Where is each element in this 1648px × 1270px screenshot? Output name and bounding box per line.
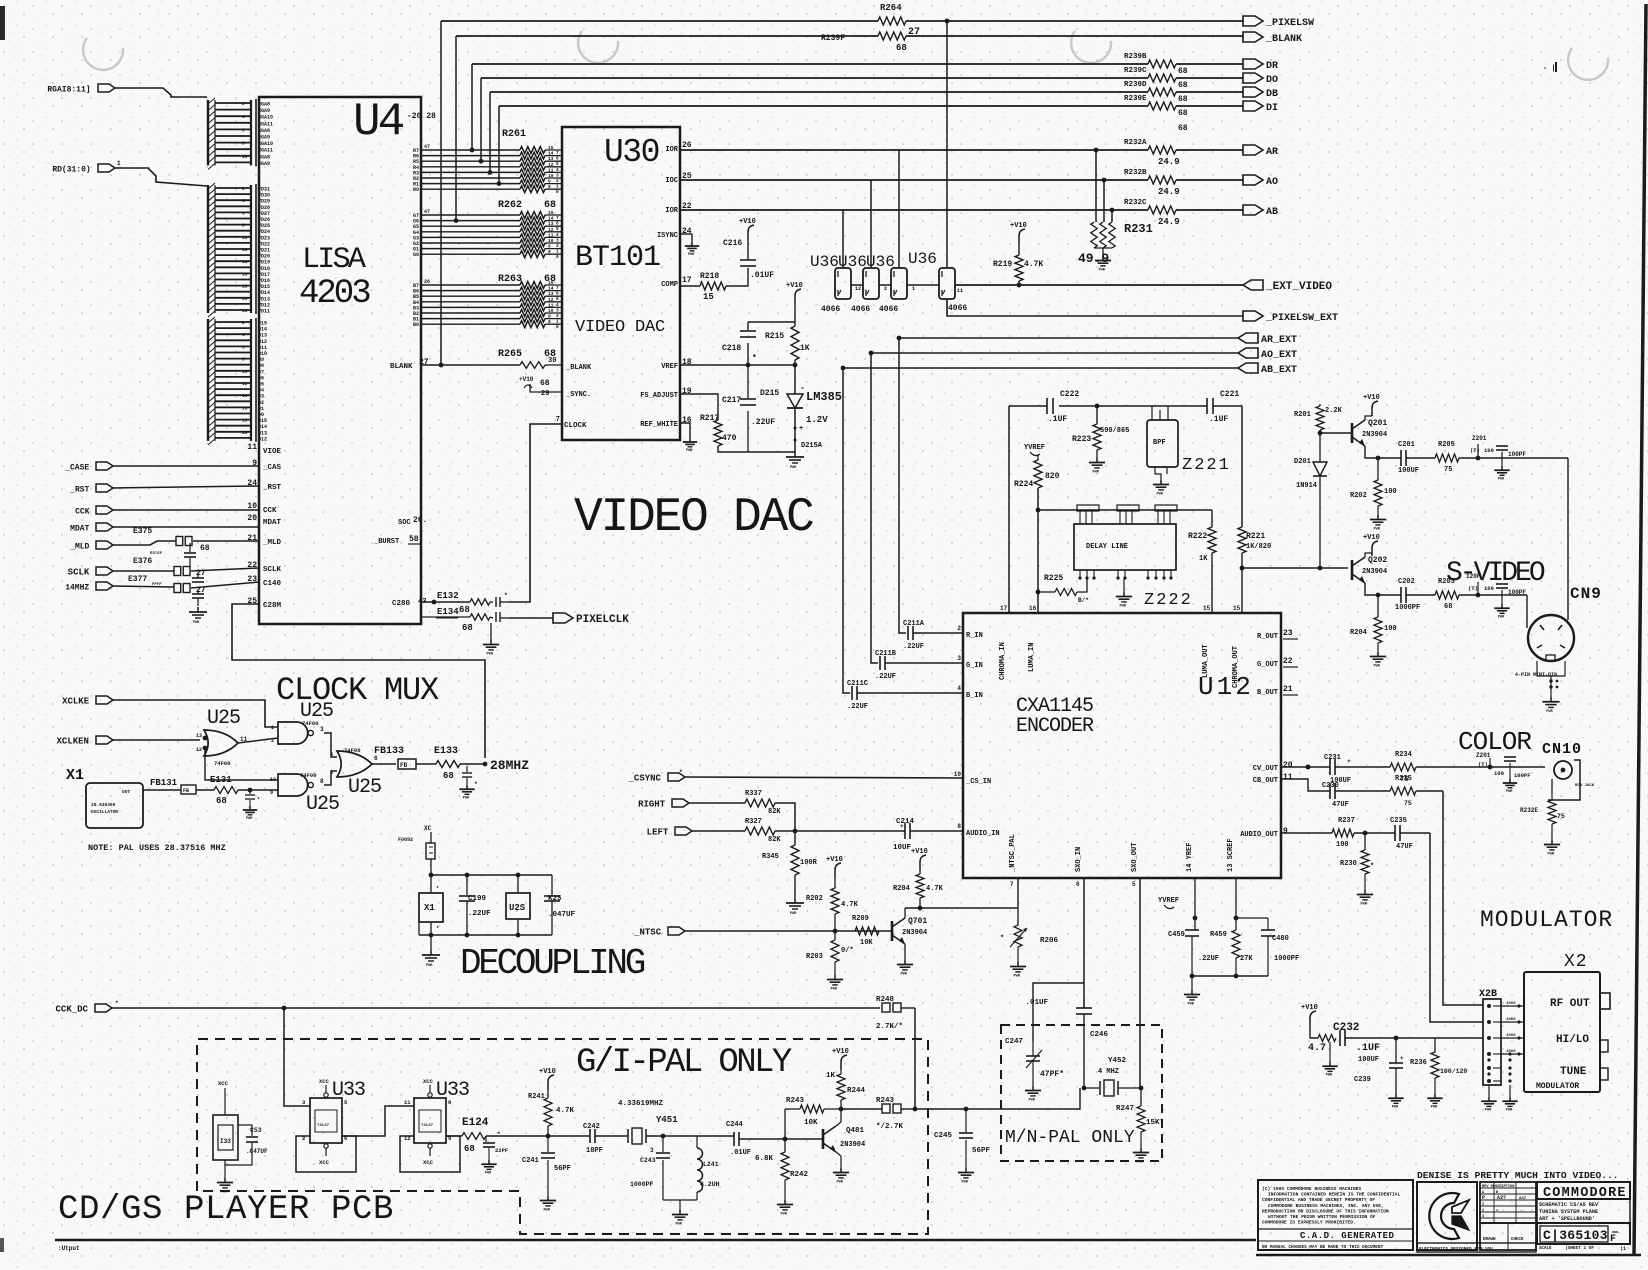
svg-text:SXO_OUT: SXO_OUT: [1131, 843, 1139, 872]
svg-text:RIGHT: RIGHT: [638, 800, 666, 810]
resistor R265: [520, 362, 545, 369]
node AO_EXT output: [1238, 348, 1258, 358]
svg-text:6: 6: [242, 210, 245, 216]
svg-text:_SYNC.: _SYNC.: [565, 391, 591, 399]
wire FB133 to E133: [416, 763, 436, 765]
ground X2B col1: [1488, 1085, 1490, 1097]
svg-text:_PIXELSW_EXT: _PIXELSW_EXT: [1265, 313, 1338, 324]
svg-text:+V10: +V10: [1010, 222, 1027, 230]
svg-text:XCC: XCC: [319, 1159, 330, 1166]
svg-text:COLOR: COLOR: [1458, 727, 1531, 757]
svg-text:47PF*: 47PF*: [1040, 1070, 1064, 1079]
svg-text:BLANK: BLANK: [390, 363, 413, 371]
ground under I33: [224, 1165, 226, 1178]
wire vertical net DO: [480, 78, 482, 161]
svg-text:2.2K: 2.2K: [1325, 407, 1343, 415]
svg-text:PWR: PWR: [1157, 492, 1164, 496]
svg-text:SOC: SOC: [398, 519, 411, 527]
svg-text:R222: R222: [1188, 532, 1207, 541]
svg-text:XCC: XCC: [423, 1159, 434, 1166]
svg-text:LEFT: LEFT: [647, 828, 669, 838]
svg-text:PWR: PWR: [781, 1212, 788, 1216]
svg-text:R205: R205: [1438, 441, 1455, 449]
ground under C247: [1032, 1086, 1034, 1091]
svg-text:.01UF: .01UF: [750, 271, 774, 280]
svg-text:CLOCK: CLOCK: [564, 422, 587, 430]
svg-text:INFORMATION CONTAINED HEREIN I: INFORMATION CONTAINED HEREIN IS THE CONF…: [1268, 1192, 1401, 1198]
svg-text:G0: G0: [413, 252, 419, 258]
svg-text:Y452: Y452: [1108, 1057, 1127, 1065]
wire REF_WHITE stub to ground: [680, 423, 690, 438]
svg-text:100: 100: [1336, 841, 1349, 849]
G/I-PAL ONLY dashed box: [197, 1039, 928, 1234]
svg-text:MDAT: MDAT: [263, 519, 282, 527]
CN9 pins below: [1536, 661, 1538, 672]
svg-text:4066: 4066: [851, 305, 870, 314]
wire RGA bus to ladder: [115, 88, 207, 97]
svg-text:R247: R247: [1116, 1105, 1134, 1113]
analog switch U36 b: [863, 268, 879, 299]
ground under C459 rail: [1191, 976, 1193, 990]
svg-text:1K: 1K: [800, 344, 810, 353]
svg-text:56PF: 56PF: [554, 1165, 571, 1173]
ground under R247: [1140, 1132, 1142, 1148]
svg-text:I33: I33: [220, 1138, 231, 1145]
svg-text:DR: DR: [1266, 61, 1278, 72]
svg-text:C239: C239: [1354, 1076, 1371, 1084]
ground under C245: [965, 1168, 967, 1173]
svg-text:L241: L241: [703, 1161, 719, 1168]
wire U33a to U33b: [342, 1106, 414, 1136]
svg-text:8: 8: [242, 357, 245, 363]
svg-text:- |: - |: [1543, 65, 1556, 73]
svg-text:E376: E376: [133, 557, 152, 566]
svg-text:100PF: 100PF: [1508, 451, 1526, 458]
svg-text:COMMODORE IS EXPRESSLY PROHIBI: COMMODORE IS EXPRESSLY PROHIBITED.: [1262, 1220, 1356, 1226]
svg-text:PWR: PWR: [1392, 1106, 1399, 1110]
svg-text:COMP: COMP: [661, 281, 678, 289]
gate U25 or-gate A: [204, 730, 238, 756]
rail under tank: [663, 1199, 697, 1201]
wire DI rail: [499, 105, 1148, 107]
svg-text:4: 4: [242, 332, 245, 338]
svg-text:MDAT: MDAT: [70, 525, 89, 534]
ground under Z222: [1123, 578, 1125, 592]
svg-text:FB133: FB133: [374, 746, 404, 757]
svg-text:CHROMA_OUT: CHROMA_OUT: [1232, 646, 1240, 688]
wire luma to CN9: [1567, 458, 1569, 620]
svg-text:R232C: R232C: [1124, 199, 1147, 207]
svg-text:C246: C246: [1090, 1031, 1109, 1039]
svg-text:U25: U25: [348, 776, 381, 799]
transistor Q481 2N3904: [822, 1129, 825, 1149]
svg-text:11: 11: [548, 302, 554, 308]
svg-text:RCA JACK: RCA JACK: [1575, 784, 1595, 788]
svg-text:74F00: 74F00: [300, 772, 317, 779]
svg-text:-20 28: -20 28: [407, 112, 436, 121]
svg-text:8: 8: [242, 223, 245, 229]
svg-text:68: 68: [464, 1144, 475, 1154]
svg-text:XCC: XCC: [319, 1078, 330, 1085]
svg-text:|SHEET 1 OF: |SHEET 1 OF: [1565, 1246, 1594, 1251]
svg-text:R_OUT: R_OUT: [1257, 633, 1278, 641]
capacitor on SCLK net: [197, 573, 199, 578]
svg-text:+: +: [900, 823, 904, 830]
wire _PIXELSW rail: [441, 20, 878, 22]
svg-text:12: 12: [548, 162, 554, 168]
svg-text:E132: E132: [437, 591, 459, 601]
node DI output: [1243, 101, 1263, 111]
connector ladder RD(31:16) bus pins: [207, 185, 209, 313]
svg-text:C243: C243: [640, 1157, 656, 1164]
svg-text:47UF: 47UF: [1396, 843, 1413, 851]
wire RD bus to ladder: [115, 168, 207, 186]
wire U30 IOR to R232A: [680, 149, 1148, 151]
svg-text:CHECK: CHECK: [1511, 1238, 1524, 1242]
svg-text:C217: C217: [722, 396, 741, 405]
capacitor 100PF composite: [1509, 763, 1511, 767]
node DR output: [1243, 59, 1263, 69]
svg-text:5: 5: [1132, 881, 1136, 888]
svg-text:PWR: PWR: [831, 987, 838, 991]
svg-text:1: 1: [912, 286, 915, 292]
svg-text:68: 68: [896, 43, 907, 53]
svg-text:100UF: 100UF: [1398, 467, 1419, 475]
svg-text:LUMA_IN: LUMA_IN: [1028, 643, 1036, 672]
svg-text:C211B: C211B: [875, 650, 897, 658]
svg-text:74LS7: 74LS7: [317, 1124, 330, 1128]
svg-text:_EXT_VIDEO: _EXT_VIDEO: [1265, 281, 1332, 293]
svg-text:0/*: 0/*: [841, 947, 854, 955]
wire vertical net A (top y21 to BLANK): [440, 21, 442, 365]
svg-text:NO MANUAL CHANGES MAY BE MADE: NO MANUAL CHANGES MAY BE MADE TO THIS DO…: [1262, 1245, 1384, 1250]
svg-text:.C47UF: .C47UF: [246, 1148, 268, 1155]
X2B to X2 wires: [1501, 1005, 1524, 1007]
svg-text:CCK: CCK: [263, 507, 277, 515]
svg-text:4.7: 4.7: [1308, 1043, 1326, 1054]
svg-text:XC: XC: [424, 825, 432, 832]
wire U33b to E124: [446, 1135, 462, 1137]
power +V10 above R215: [795, 289, 801, 304]
svg-text:DELAY LINE: DELAY LINE: [1086, 543, 1128, 551]
svg-text:*: *: [115, 1000, 119, 1007]
wire SXO_OUT down: [1139, 878, 1141, 1088]
svg-text:2N3904: 2N3904: [1362, 568, 1387, 576]
svg-text:(C) 1990 COMMODORE BUSINESS MA: (C) 1990 COMMODORE BUSINESS MACHINES: [1262, 1186, 1361, 1192]
svg-text:|1: |1: [1620, 1246, 1626, 1252]
svg-text:11: 11: [548, 167, 554, 173]
svg-text:MODULATOR: MODULATOR: [1480, 907, 1613, 933]
wire 14MHZ to U4 pin23: [113, 586, 174, 587]
svg-text:15: 15: [703, 292, 714, 302]
svg-text:R_IN: R_IN: [966, 632, 983, 640]
svg-text:R0: R0: [413, 187, 419, 193]
svg-text:Q481: Q481: [846, 1127, 865, 1135]
svg-text:24.9: 24.9: [1158, 157, 1180, 167]
svg-text:C202: C202: [1398, 578, 1415, 586]
svg-text:CCK: CCK: [75, 508, 90, 517]
wire AO_EXT rail: [871, 352, 1238, 354]
svg-text:470: 470: [722, 434, 737, 443]
IC U12 CXA1145 box: [963, 613, 1281, 878]
scan smudge top-left corner: [0, 6, 5, 40]
wire vertical DAC G out: [870, 180, 872, 268]
svg-text:11: 11: [404, 1099, 411, 1106]
svg-text:HI/LO: HI/LO: [1556, 1034, 1589, 1046]
svg-text:E134: E134: [437, 607, 459, 617]
svg-text:.047UF: .047UF: [548, 911, 576, 919]
svg-text:Q701: Q701: [908, 917, 927, 926]
svg-text:58: 58: [409, 535, 419, 544]
power +V10 for R204a: [920, 855, 926, 870]
svg-text:18: 18: [242, 284, 248, 290]
ground under R236: [1434, 1078, 1436, 1094]
wire RIGHT join LEFT: [775, 803, 795, 831]
ground under R202: [1377, 506, 1379, 515]
wire AUDIO_OUT: [1281, 832, 1332, 834]
svg-text:R204: R204: [1350, 629, 1367, 637]
svg-text:C218: C218: [722, 344, 741, 353]
svg-text:C241: C241: [522, 1157, 539, 1165]
svg-text:20: 20: [242, 296, 248, 302]
flip-flop U33 b: [414, 1098, 446, 1143]
capacitor 100PF luma: [1501, 452, 1503, 458]
svg-text:Q201: Q201: [1368, 419, 1387, 428]
svg-text:PWR: PWR: [688, 253, 695, 257]
svg-text:R219: R219: [993, 260, 1012, 269]
capacitor 100PF chroma: [1501, 590, 1503, 595]
wire vertical net DI: [498, 106, 500, 184]
transistor Q701 2N3904: [891, 921, 894, 941]
svg-text:_CSYNC: _CSYNC: [628, 774, 662, 784]
svg-text:_RST: _RST: [262, 484, 282, 492]
svg-text:_MLD: _MLD: [262, 539, 282, 547]
capacitor on MLD net: [189, 543, 191, 552]
svg-text:R202: R202: [1350, 492, 1367, 500]
svg-text:R237: R237: [1338, 817, 1355, 825]
svg-text:17: 17: [1000, 605, 1008, 612]
svg-text:C459: C459: [1168, 931, 1185, 939]
svg-text:9: 9: [270, 790, 273, 796]
svg-text:10: 10: [548, 308, 554, 314]
svg-text:2N3904: 2N3904: [902, 929, 927, 937]
svg-text:9: 9: [548, 179, 551, 185]
svg-text:U4: U4: [353, 96, 404, 148]
decoupling top rail: [431, 874, 552, 876]
svg-text:29: 29: [541, 390, 549, 398]
svg-text:21: 21: [1283, 685, 1293, 694]
wire XCLKEN branch to nand-D: [205, 748, 278, 780]
svg-text:FS_ADJUST: FS_ADJUST: [640, 392, 678, 400]
ground under R232E: [1551, 824, 1553, 840]
svg-text:8: 8: [957, 823, 961, 830]
svg-text:R204: R204: [893, 885, 910, 893]
svg-text:U25: U25: [300, 700, 333, 723]
svg-text:10K: 10K: [804, 1119, 818, 1127]
bandpass filter Z221 BPF box: [1147, 420, 1178, 467]
wire CB_OUT: [1281, 779, 1330, 791]
svg-text:U25: U25: [306, 793, 339, 816]
title block left copyright box: [1258, 1180, 1413, 1250]
wire VREF net: [680, 364, 793, 366]
svg-text:DRAWN: DRAWN: [1483, 1238, 1496, 1242]
svg-text:68: 68: [1444, 603, 1452, 611]
modulator X2 box: [1524, 972, 1600, 1092]
svg-text:2: 2: [1482, 1209, 1484, 1213]
scan tick mark top right: [1555, 62, 1557, 72]
svg-text:68: 68: [1178, 109, 1188, 118]
svg-text:XCC: XCC: [423, 1078, 434, 1085]
wire vertical net DB: [489, 92, 491, 172]
svg-text:_CAS: _CAS: [262, 464, 282, 472]
svg-text:R232B: R232B: [1124, 169, 1147, 177]
svg-text:PWR: PWR: [686, 449, 693, 453]
wire _MLD to E375: [113, 541, 176, 545]
svg-text:C242: C242: [583, 1123, 600, 1131]
svg-text:590/865: 590/865: [1100, 427, 1129, 435]
delay line Z222 box: [1074, 524, 1176, 570]
svg-text:R459: R459: [1210, 931, 1227, 939]
svg-text:15: 15: [1233, 605, 1241, 612]
svg-text:_CASE: _CASE: [64, 464, 89, 473]
svg-text:AUDIO_OUT: AUDIO_OUT: [1240, 831, 1278, 839]
svg-text:14 YREF: 14 YREF: [1186, 843, 1194, 872]
svg-text:11: 11: [548, 232, 554, 238]
wire SCLK to U4 pin22: [113, 570, 174, 572]
svg-text:2: 2: [242, 320, 245, 326]
svg-text:68: 68: [544, 200, 556, 211]
svg-text:IOR: IOR: [665, 207, 678, 215]
svg-text:6: 6: [242, 127, 245, 133]
svg-text:FB: FB: [400, 762, 408, 769]
svg-text:C221: C221: [1220, 390, 1239, 399]
svg-text:PWR: PWR: [1485, 1109, 1492, 1113]
svg-text:8: 8: [548, 184, 551, 190]
svg-text:DENISE IS PRETTY MUCH INTO VID: DENISE IS PRETTY MUCH INTO VIDEO...: [1417, 1170, 1619, 1181]
svg-text:15: 15: [1203, 605, 1211, 612]
title block logo footer: [1417, 1243, 1536, 1252]
svg-text:22: 22: [1283, 657, 1293, 666]
svg-text::Utput: :Utput: [58, 1245, 80, 1252]
resistor network R261 (8x): [421, 149, 520, 151]
svg-text:AO_EXT: AO_EXT: [1261, 350, 1297, 361]
svg-text:SCALE: SCALE: [1539, 1247, 1552, 1251]
wire PIXELCLK: [509, 617, 553, 619]
svg-text:LM385: LM385: [806, 390, 842, 404]
svg-text:B_OUT: B_OUT: [1257, 689, 1278, 697]
svg-text:TUNE: TUNE: [1560, 1066, 1587, 1078]
ground under R345: [794, 875, 796, 898]
wire Q201 base: [1320, 432, 1352, 434]
svg-text:20: 20: [1283, 761, 1293, 770]
svg-text:E124: E124: [462, 1117, 489, 1129]
wire vertical DAC R out: [898, 150, 900, 268]
svg-text:1000: 1000: [1506, 1002, 1516, 1006]
svg-text:D201: D201: [1294, 458, 1311, 466]
power +V10 above R219: [1019, 229, 1025, 244]
svg-text:*: *: [1000, 935, 1004, 943]
svg-text:CB_OUT: CB_OUT: [1253, 777, 1278, 785]
svg-text:RGA10: RGA10: [258, 115, 273, 121]
svg-text:9: 9: [1283, 827, 1288, 836]
svg-text:1K/820: 1K/820: [1246, 543, 1271, 551]
svg-text:C28M: C28M: [263, 602, 282, 610]
svg-text:+V10: +V10: [826, 856, 843, 864]
svg-text:R231: R231: [1124, 222, 1153, 236]
svg-text:*: *: [497, 1131, 501, 1138]
resistor network R263 (8x): [421, 284, 520, 286]
svg-text:C211A: C211A: [903, 620, 925, 628]
svg-text:0: 0: [556, 324, 559, 330]
svg-text:13: 13: [548, 221, 554, 227]
svg-text:13 SCREF: 13 SCREF: [1227, 838, 1235, 872]
svg-text:_NTSC_PAL: _NTSC_PAL: [1009, 834, 1017, 873]
capacitor on 14MHZ net: [197, 590, 199, 594]
svg-text:13: 13: [548, 291, 554, 297]
wire R231 verticals: [1095, 150, 1097, 222]
ground on REF_WHITE: [689, 438, 691, 442]
svg-text:12: 12: [196, 747, 202, 753]
svg-text:CN9: CN9: [1570, 585, 1602, 603]
rail under C459 R459 C480: [1192, 975, 1268, 977]
svg-text:R327: R327: [745, 818, 762, 826]
svg-text:*: *: [752, 354, 757, 363]
svg-text:C247: C247: [1005, 1038, 1023, 1046]
connector ladder RD(15:0) bus pins: [207, 319, 209, 441]
svg-text:1.2V: 1.2V: [806, 415, 828, 425]
svg-text:PWR: PWR: [426, 964, 433, 968]
svg-text:R203: R203: [806, 953, 823, 961]
svg-text:TUNING SYSTEM PLANE: TUNING SYSTEM PLANE: [1539, 1209, 1598, 1215]
svg-text:+: +: [1347, 758, 1351, 765]
svg-text:56PF: 56PF: [972, 1147, 991, 1155]
ground for E37x caps: [197, 607, 199, 612]
wire Q201 collector: [1365, 416, 1372, 420]
svg-text:CHROMA_IN: CHROMA_IN: [999, 642, 1007, 680]
svg-text:12: 12: [242, 247, 248, 253]
svg-text:4066: 4066: [821, 305, 840, 314]
wire DO rail: [481, 77, 1148, 79]
wire E132 E134 left join: [420, 602, 422, 617]
svg-text:G_IN: G_IN: [966, 662, 983, 670]
power +V10 Q202 supply: [1372, 541, 1378, 556]
svg-text:+V10: +V10: [1363, 394, 1380, 402]
svg-text:E131: E131: [210, 775, 232, 785]
svg-text:10: 10: [242, 235, 248, 241]
wire E375 to U4 pin21: [193, 540, 259, 542]
svg-text:AUDIO_IN: AUDIO_IN: [966, 830, 1000, 838]
wire CSYNC to U12: [685, 777, 963, 778]
svg-text:12: 12: [548, 227, 554, 233]
svg-text:SCLK: SCLK: [263, 566, 282, 574]
svg-text:.1UF: .1UF: [1048, 415, 1067, 424]
svg-text:X1: X1: [66, 767, 84, 784]
svg-text:OSCILLATOR: OSCILLATOR: [91, 809, 118, 815]
wire _BLANK rail: [456, 35, 878, 37]
ground at 28MHZ cap: [466, 785, 468, 789]
svg-text:C140: C140: [263, 580, 282, 588]
svg-text:82K: 82K: [768, 836, 781, 844]
svg-text:1: 1: [271, 725, 274, 731]
svg-text:XCC: XCC: [218, 1080, 229, 1087]
power +V10 above C216: [748, 225, 754, 240]
svg-text:CV_OUT: CV_OUT: [1253, 765, 1278, 773]
svg-text:X1: X1: [424, 903, 435, 913]
svg-text:PWR: PWR: [1099, 268, 1106, 272]
svg-text:PWR: PWR: [221, 1190, 228, 1194]
wire U30 IOR to R232B: [680, 179, 1148, 181]
svg-text:PWR: PWR: [246, 817, 253, 821]
